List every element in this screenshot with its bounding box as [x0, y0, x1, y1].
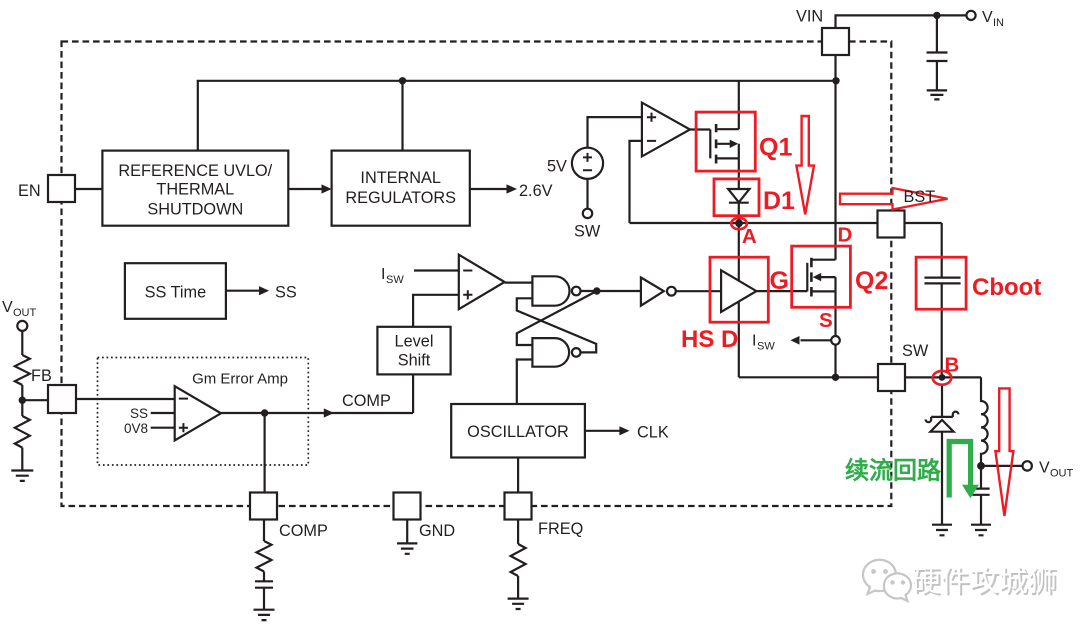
wire node A horizontal to BST pin [630, 222, 878, 224]
svg-text:REFERENCE UVLO/: REFERENCE UVLO/ [118, 162, 272, 180]
wire nand1 output to inverter [581, 290, 641, 292]
terminal VOUT left circle [17, 321, 27, 331]
svg-text:FB: FB [31, 367, 52, 385]
svg-text:REGULATORS: REGULATORS [345, 189, 456, 207]
node dot rail to VIN line [832, 77, 839, 84]
nand gate 1 [532, 276, 569, 305]
wire inverter to HS driver [676, 290, 721, 292]
ground Cin [927, 90, 947, 99]
inverter gate [641, 278, 664, 306]
node B ring [933, 371, 952, 385]
node A ring [731, 218, 747, 229]
svg-text:THERMAL: THERMAL [156, 181, 234, 199]
block SS Time [125, 263, 226, 319]
pin GND [394, 493, 421, 520]
wire Cboot to node B [941, 283, 943, 374]
node dot Q2 source SW rail [832, 374, 839, 381]
svg-text:SS Time: SS Time [145, 283, 207, 301]
highlight box D1 [714, 179, 759, 216]
diode D2 freewheel schottky [941, 384, 943, 417]
arrowhead COMP wire [324, 408, 334, 417]
wire FB pin to error amp [76, 398, 175, 400]
svg-text:S: S [819, 309, 833, 332]
wire COMP riser to pin [264, 413, 266, 493]
wire error amp output to level shift [221, 412, 413, 414]
wire 0V8 stub [151, 427, 175, 429]
wire nand2 lower input to oscillator [517, 360, 533, 405]
terminal SW circle [583, 209, 592, 218]
block INTERNAL REGULATORS [332, 151, 470, 226]
block REFERENCE UVLO / THERMAL SHUTDOWN [102, 151, 288, 226]
wire top supply rail [197, 80, 837, 82]
svg-text:D1: D1 [763, 187, 795, 215]
inductor L1 [981, 377, 988, 466]
wire D1 to node A and HS driver riser [738, 203, 740, 378]
pin VIN [822, 28, 849, 55]
svg-text:SW: SW [386, 274, 404, 286]
svg-text:Q1: Q1 [759, 134, 792, 162]
wire COMP pin to compensation network [263, 520, 265, 542]
wire Q1 source to D1 [738, 158, 740, 189]
svg-text:GND: GND [419, 522, 455, 540]
terminal VOUT right circle [1022, 461, 1031, 470]
pin BST [878, 211, 905, 238]
node dot VOUT [977, 462, 985, 470]
wire Q2 source to SW rail [834, 345, 836, 378]
capacitor Ccomp [255, 572, 273, 610]
resistor Rcomp [257, 541, 272, 572]
transistor Q2 [806, 263, 808, 292]
svg-text:I: I [381, 266, 385, 283]
wire ISW tap arrow [801, 339, 832, 341]
ground Rfreq [508, 599, 529, 609]
wire Q1 drain to rail [738, 81, 740, 129]
resistor R1 feedback top [15, 355, 30, 385]
node dot COMP [261, 409, 268, 416]
svg-text:D: D [838, 224, 853, 247]
wire cross coupling nand2 out to nand1 input [517, 298, 596, 352]
svg-text:G: G [770, 267, 789, 295]
svg-text:CLK: CLK [637, 424, 669, 442]
nand gate 2 [532, 338, 569, 367]
svg-text:OUT: OUT [13, 307, 37, 319]
wire oscillator to CLK arrow [585, 430, 620, 432]
wire comparator to nand1 [505, 282, 533, 284]
watermark icon chat bubbles [863, 560, 911, 601]
svg-text:续流回路: 续流回路 [845, 457, 942, 485]
terminal VIN circle [966, 11, 975, 20]
svg-text:FREQ: FREQ [538, 520, 583, 538]
wire VIN pin to VIN terminal [836, 15, 967, 28]
wire cross coupling nand1 out to nand2 input [517, 291, 597, 345]
svg-text:Cboot: Cboot [972, 274, 1041, 301]
svg-text:V: V [982, 9, 993, 26]
svg-text:SS: SS [130, 406, 148, 421]
resistor R2 feedback bottom [15, 416, 30, 448]
highlight box Cboot [916, 257, 966, 309]
svg-text:0V8: 0V8 [124, 421, 148, 436]
svg-text:INTERNAL: INTERNAL [360, 169, 441, 187]
op-amp Gm error amp triangle [175, 386, 221, 440]
svg-text:Level: Level [395, 333, 434, 351]
ground feedback divider [11, 471, 33, 481]
red arrow BST [840, 188, 948, 210]
svg-text:SS: SS [275, 283, 297, 301]
svg-text:Gm Error Amp: Gm Error Amp [192, 371, 288, 388]
svg-text:EN: EN [18, 182, 41, 200]
capacitor Cout [972, 466, 989, 525]
wire GND pin to ground [406, 520, 408, 544]
wire Rfreq to ground [517, 576, 519, 598]
pin SW [878, 364, 905, 391]
svg-text:SW: SW [574, 223, 601, 241]
node dot input cap [933, 12, 940, 19]
pin FB [48, 385, 76, 413]
node FB junction dot [21, 385, 23, 416]
pin COMP [250, 493, 277, 520]
block Level Shift [377, 327, 450, 375]
svg-text:A: A [742, 225, 757, 248]
svg-text:V: V [2, 299, 13, 316]
svg-text:5V: 5V [547, 158, 567, 176]
source 5V circle [572, 148, 603, 179]
svg-text:B: B [945, 354, 960, 377]
svg-text:Shift: Shift [398, 352, 431, 370]
wire BST pin to Cboot [905, 223, 942, 278]
ground GND pin [397, 543, 417, 553]
node dot nand1 output [593, 287, 600, 294]
dotted box Gm error amp [98, 358, 309, 466]
svg-text:OSCILLATOR: OSCILLATOR [467, 423, 569, 441]
wire VOUT to R1 [21, 331, 23, 355]
svg-text:COMP: COMP [342, 392, 391, 410]
node B dot [939, 374, 946, 381]
wire R2 to ground [21, 448, 23, 471]
op-amp boot comparator triangle [642, 103, 690, 157]
svg-text:OUT: OUT [1050, 468, 1074, 480]
svg-text:SHUTDOWN: SHUTDOWN [147, 200, 243, 218]
svg-text:Q2: Q2 [855, 267, 888, 295]
wire EN to reference block [75, 188, 102, 190]
wire SW rail [739, 376, 878, 378]
transistor Q1 [690, 130, 710, 159]
svg-text:COMP: COMP [279, 522, 328, 540]
svg-text:SW: SW [757, 341, 775, 353]
node dot rail to regulators [399, 77, 406, 84]
wire D2 to ground [941, 432, 943, 525]
wire comparator plus input riser [413, 295, 459, 327]
wire oscillator to FREQ pin [517, 458, 519, 493]
resistor Rfreq [511, 544, 526, 576]
driver HS triangle [721, 270, 756, 312]
highlight box HS driver [710, 257, 768, 322]
terminal ISW tap circle [831, 336, 840, 345]
wire level shift riser [412, 374, 414, 413]
svg-text:V: V [1039, 460, 1050, 477]
svg-text:硬件攻城狮: 硬件攻城狮 [912, 565, 1057, 598]
wire op-amp minus feedback [630, 141, 642, 223]
svg-text:BST: BST [904, 188, 936, 206]
svg-text:I: I [752, 333, 756, 350]
wire Q2 source to ISW tap [834, 291, 836, 336]
wire regulators top riser [401, 81, 403, 151]
wire reference to regulators arrow [288, 188, 322, 190]
wire SS Time arrow [226, 290, 260, 292]
red current arrow Q1 [796, 116, 814, 214]
svg-text:VIN: VIN [796, 8, 823, 26]
wire ISW to comparator [414, 269, 459, 271]
pin FREQ [505, 493, 532, 520]
ground comp network [254, 610, 275, 620]
green freewheel path arrow [949, 442, 970, 498]
pin EN [48, 175, 75, 202]
wire SW pin to node B and inductor [905, 376, 981, 378]
ground D2 [932, 525, 952, 536]
wire 5V source to op-amp plus [588, 117, 642, 148]
IC boundary dashed box [62, 42, 892, 507]
capacitor Cin [927, 15, 948, 90]
wire 5V source to SW terminal [586, 179, 588, 209]
svg-text:SW: SW [902, 342, 929, 360]
ground Cout [971, 525, 991, 536]
block OSCILLATOR [451, 404, 585, 458]
capacitor Cboot [924, 278, 960, 284]
wire regulators to 2.6V arrow [470, 188, 507, 190]
node A dot [735, 219, 743, 227]
svg-text:HS D: HS D [681, 326, 738, 353]
wire SS stub [151, 412, 175, 414]
wire FREQ pin to resistor [517, 520, 519, 545]
wire reference block top riser [197, 81, 199, 151]
svg-text:IN: IN [993, 17, 1004, 29]
highlight box Q2 [792, 246, 851, 307]
wire VIN vertical to Q2 drain [834, 55, 836, 260]
comparator PWM triangle [459, 255, 505, 310]
diode D1 [728, 189, 749, 202]
wire driver to Q2 gate [756, 290, 807, 292]
svg-text:2.6V: 2.6V [519, 182, 553, 200]
wire to VOUT terminal [981, 465, 1023, 467]
highlight box Q1 [696, 112, 755, 171]
red current arrow output [995, 388, 1013, 516]
wire FB node to FB pin [22, 399, 48, 401]
